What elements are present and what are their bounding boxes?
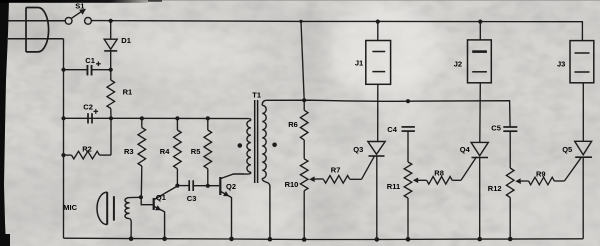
svg-text:MIC: MIC [63,203,77,212]
svg-text:R2: R2 [82,145,92,154]
wire: mic coil bottom to ground [130,219,132,239]
svg-text:S1: S1 [75,1,84,10]
potentiometer R11 [404,162,412,198]
svg-text:Q2: Q2 [226,182,236,191]
svg-text:C5: C5 [491,123,501,132]
wire: bottom prong through plug to left rail [8,38,64,40]
svg-text:R12: R12 [488,184,502,193]
node: left rail / C2 [61,116,65,120]
switch S1 [65,17,72,24]
transistor Q1 [153,198,155,210]
resistor R5 [207,118,209,130]
resistor R9 [529,177,555,185]
svg-text:J1: J1 [355,59,363,68]
wire: top supply rail [91,21,582,41]
svg-text:R6: R6 [288,120,298,129]
transformer T1 secondary winding [262,100,266,105]
node: mic / ground rail [129,236,134,241]
SCR Q3 [368,142,385,155]
wiper of R11 [417,179,427,181]
capacitor C4 [402,126,415,128]
node: left rail / C1 [61,68,65,72]
wire: Q3 cathode to ground [376,156,378,239]
node: bias rail / R3 [140,116,144,120]
wire: J3 to Q5 anode [582,83,584,142]
phase dot: T1 primary [238,143,243,148]
wire: top prong through plug to S1 [8,20,65,22]
wire C1 row [64,69,111,71]
node: top rail / R6 branch [299,20,302,23]
jack J3 [570,41,594,83]
svg-text:R4: R4 [160,147,170,156]
svg-text:R7: R7 [331,166,341,175]
transistor Q2 [219,177,221,195]
resistor R2 [64,154,72,156]
node: T1 secondary / ground [268,237,273,242]
wire: ground rail [64,238,584,239]
wire: left rail [63,39,65,238]
svg-text:C1: C1 [85,56,95,65]
capacitor C2 [87,113,89,123]
node: R11 / ground [406,237,411,242]
node: Q1 emitter / ground [162,237,167,242]
svg-text:R1: R1 [123,87,133,96]
wiper of R12 [520,180,529,182]
node: C3 / R5 / Q2 base [206,184,210,188]
svg-text:Q5: Q5 [562,145,572,154]
capacitor C5 [503,126,517,128]
node: R10 / ground [302,237,307,242]
svg-text:R11: R11 [387,182,400,191]
node: D1 / C1 / R1 [109,68,113,72]
resistor R3 [141,118,143,127]
potentiometer R12 [506,168,514,198]
node: audio rail / C4 [406,99,410,103]
microphone MIC cartridge [97,192,107,225]
svg-text:D1: D1 [121,36,131,45]
svg-text:R3: R3 [124,147,134,156]
node: left rail / R2 [61,153,65,157]
svg-text:R9: R9 [536,170,546,179]
svg-text:C3: C3 [187,194,197,203]
diode D1 [104,39,117,49]
resistor R8 [427,177,453,185]
wire: bias rail to T1 primary [111,117,248,119]
node: audio rail / R6 [302,98,306,102]
node: R4 / Q1 collector / C3 [175,184,179,188]
transformer T1 primary winding [248,119,251,121]
svg-text:T1: T1 [252,91,261,100]
wiper of R10 [314,178,324,180]
resistor R1 [110,70,112,80]
wire: R8 to Q4 gate [461,157,477,180]
node: top rail / J2 [478,20,482,24]
jack J2 [468,40,492,83]
capacitor C3 [188,180,190,191]
svg-text:J3: J3 [557,60,565,69]
AC plug (line cord plug) [26,8,49,52]
SCR Q4 [471,142,488,155]
svg-text:R10: R10 [285,180,299,189]
SCR Q5 [575,141,592,155]
node: top rail / J1 [376,20,380,24]
resistor R6 [303,100,305,110]
polarity + of C1 [96,62,101,67]
wire: R9 to Q5 gate [564,158,581,181]
node: R3 / mic / Q1 base [139,195,143,199]
potentiometer R10 [300,159,308,191]
node: Q4 / ground [477,237,482,242]
wire: J1 to Q3 anode [377,84,379,141]
wire: Q1 base lead [141,197,153,205]
wire: R7 to Q3 gate [362,156,375,179]
node: top rail / D1 [109,19,113,23]
resistor R7 [323,176,349,184]
node: bias rail / R4 [175,116,179,120]
node: Q2 emitter / ground [229,237,234,242]
wire: Q4 cathode to ground [479,158,481,240]
svg-text:J2: J2 [454,60,462,69]
capacitor C1 [87,65,89,75]
svg-text:C2: C2 [83,103,93,112]
node: R1 / C2 / R2 branch [109,116,113,120]
wire: top rail to audio rail [301,21,304,100]
resistor R4 [176,118,178,130]
node: bias rail / R5 [206,116,210,120]
wire: mic coil top to Q1 base node [130,196,141,198]
svg-text:Q4: Q4 [460,145,471,154]
node: R12 / ground [508,237,513,242]
wire: Q5 cathode riser [582,157,584,239]
wire: C3 right to Q2 base [193,185,219,187]
wire: audio rail from T1 to C5 [267,100,511,127]
phase dot: T1 secondary [272,143,277,148]
wire: J2 to Q4 anode [479,83,482,143]
svg-text:C4: C4 [387,125,397,134]
svg-text:R8: R8 [434,169,444,178]
mic coupling coil [125,198,130,219]
transformer T1 core [254,100,256,183]
svg-text:R5: R5 [191,147,201,156]
node: Q3 / ground [375,237,380,242]
svg-text:Q1: Q1 [156,193,166,202]
polarity + of C2 [94,109,99,114]
svg-text:Q3: Q3 [353,145,363,154]
jack J1 [366,41,391,85]
wire C2 row [64,117,112,119]
wire: D1 column [110,21,112,39]
wire: C3 left [177,185,189,187]
